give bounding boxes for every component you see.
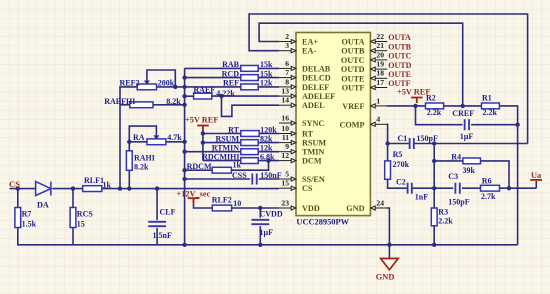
svg-text:R7: R7 bbox=[22, 210, 32, 219]
svg-text:OUTA: OUTA bbox=[341, 38, 364, 47]
capacitor CREF bbox=[465, 119, 469, 130]
wire RLF1 to pin 15 CS (crosses ground rail) bbox=[102, 188, 279, 190]
svg-text:C3: C3 bbox=[448, 172, 458, 181]
wire REF row from rail to resistor bbox=[185, 86, 241, 88]
svg-text:RTMIN: RTMIN bbox=[212, 144, 239, 153]
svg-text:15: 15 bbox=[77, 220, 85, 229]
svg-text:RAEFHI: RAEFHI bbox=[104, 97, 135, 106]
wire EA- pin 3 feedback loop to C1 node bbox=[249, 14, 527, 144]
wire REF2 right end to ground rail bbox=[157, 86, 185, 88]
pin 2 stub bbox=[279, 39, 296, 43]
pin 24 stub bbox=[371, 206, 388, 210]
wire Ua port stem bbox=[535, 181, 537, 188]
junction rail/RDCM row bbox=[182, 168, 186, 172]
svg-text:CSS: CSS bbox=[232, 171, 247, 180]
svg-text:RDCM: RDCM bbox=[187, 162, 212, 171]
pin 12 stub bbox=[279, 159, 296, 163]
pin 8 stub bbox=[279, 85, 296, 89]
wire C2 to node B lower bbox=[412, 187, 434, 189]
svg-text:2.2k: 2.2k bbox=[438, 217, 453, 226]
pin 14 stub bbox=[279, 103, 296, 107]
resistor RCD bbox=[241, 75, 258, 81]
svg-text:RAB: RAB bbox=[222, 60, 240, 69]
junction COMP node/C1 row bbox=[385, 141, 389, 145]
svg-text:+5V REF: +5V REF bbox=[397, 88, 430, 97]
wire diode DA cathode to resistor RLF1 bbox=[53, 188, 83, 190]
svg-text:OUTA: OUTA bbox=[388, 33, 411, 42]
wire R5 bottom to C2 bbox=[388, 179, 408, 188]
wire CVDD to ground rail bbox=[259, 226, 261, 245]
svg-text:DCM: DCM bbox=[302, 157, 322, 166]
wire CREF to right-side rail bbox=[471, 124, 517, 126]
resistor RCS bbox=[70, 208, 76, 228]
svg-text:ADELEF: ADELEF bbox=[302, 92, 335, 101]
pin 4 stub bbox=[371, 122, 388, 126]
pin 13 stub bbox=[279, 94, 296, 98]
svg-text:16: 16 bbox=[281, 113, 289, 122]
svg-text:6: 6 bbox=[285, 59, 289, 68]
svg-text:OUTC: OUTC bbox=[341, 56, 365, 65]
svg-text:OUTF: OUTF bbox=[342, 84, 365, 93]
wire RLF2 to pin 23 VDD bbox=[232, 207, 279, 209]
resistor R7 bbox=[15, 208, 21, 228]
svg-text:SS/EN: SS/EN bbox=[302, 175, 325, 184]
svg-text:17: 17 bbox=[376, 78, 384, 87]
svg-text:OUTD: OUTD bbox=[388, 61, 411, 70]
resistor RAB bbox=[241, 66, 258, 72]
capacitor C2 bbox=[408, 183, 412, 194]
wire RAEF left end to rail bbox=[185, 95, 194, 97]
pin 10 stub bbox=[279, 131, 296, 135]
svg-text:Ua: Ua bbox=[531, 171, 542, 180]
svg-text:REF: REF bbox=[223, 79, 239, 88]
svg-text:RSUM: RSUM bbox=[302, 139, 326, 148]
wire REF to pin 8 DELEF bbox=[258, 86, 279, 88]
junction REF2 wiper/right end bbox=[173, 85, 177, 89]
pin 3 stub bbox=[279, 49, 296, 53]
svg-text:OUTC: OUTC bbox=[388, 52, 411, 61]
resistor RLF2 bbox=[212, 205, 231, 211]
svg-text:200k: 200k bbox=[158, 78, 175, 87]
svg-text:RCD: RCD bbox=[222, 69, 240, 78]
svg-text:R6: R6 bbox=[482, 176, 492, 185]
svg-text:150pF: 150pF bbox=[448, 198, 469, 207]
wire +5V REF stem down rail bbox=[202, 131, 204, 161]
svg-text:REF2: REF2 bbox=[120, 78, 140, 87]
pin 15 stub bbox=[279, 186, 296, 190]
junction rail/RTMIN row bbox=[182, 150, 186, 154]
svg-text:7: 7 bbox=[285, 68, 289, 77]
pin 18 stub bbox=[371, 76, 388, 80]
wire RAHI down to CS line bbox=[128, 170, 130, 188]
wire RAB to pin 6 DELAB bbox=[258, 67, 279, 69]
svg-text:RCS: RCS bbox=[77, 210, 94, 219]
junction +5V rail/RSUM row bbox=[201, 140, 205, 144]
power +5V REF symbol (right) bbox=[411, 98, 423, 104]
resistor R3 bbox=[431, 208, 437, 226]
junction rail/RA right bbox=[182, 140, 186, 144]
junction rail/RAEF row bbox=[182, 94, 186, 98]
svg-text:R3: R3 bbox=[438, 208, 448, 217]
junction DCM node/RDCM bbox=[266, 158, 270, 162]
wire EA+ pin 2 feedback loop to R1/R2 node bbox=[259, 23, 463, 106]
pin 6 stub bbox=[279, 66, 296, 70]
svg-text:2: 2 bbox=[285, 32, 289, 41]
svg-text:DELEF: DELEF bbox=[302, 83, 329, 92]
junction CS/R7 bbox=[16, 186, 20, 190]
wire RCS to ground rail bbox=[72, 228, 74, 245]
svg-text:21: 21 bbox=[376, 41, 384, 50]
junction rail/RAEFHI row bbox=[182, 103, 186, 107]
junction +5V rail/RT row bbox=[201, 131, 205, 135]
svg-text:39k: 39k bbox=[463, 166, 476, 175]
ground GND symbol bbox=[381, 259, 399, 270]
svg-text:CS: CS bbox=[302, 184, 313, 193]
wire REF2 left end down to CS line bbox=[120, 87, 137, 189]
junction node B/R4 row bbox=[432, 159, 436, 163]
wire RT to pin 10 bbox=[259, 133, 279, 135]
svg-text:12k: 12k bbox=[260, 79, 273, 88]
capacitor C3 bbox=[455, 183, 459, 194]
svg-text:12: 12 bbox=[281, 151, 289, 160]
svg-text:GND: GND bbox=[346, 204, 364, 213]
wire RTMIN to pin 9 TMIN bbox=[258, 151, 279, 153]
svg-text:15k: 15k bbox=[260, 60, 273, 69]
svg-text:CREF: CREF bbox=[452, 109, 474, 118]
svg-text:TMIN: TMIN bbox=[302, 148, 324, 157]
power +5V REF symbol (left) bbox=[197, 126, 209, 132]
wire CS node down to CLF bbox=[156, 189, 158, 221]
svg-text:C2: C2 bbox=[396, 177, 406, 186]
junction VDD/CVDD bbox=[258, 206, 262, 210]
svg-text:COMP: COMP bbox=[339, 120, 364, 129]
wire RA right end to ground rail bbox=[166, 141, 185, 143]
pin 9 stub bbox=[279, 150, 296, 154]
wire RCD row from rail to resistor bbox=[185, 77, 241, 79]
svg-text:8: 8 bbox=[285, 77, 289, 86]
pin 21 stub bbox=[371, 49, 388, 53]
svg-text:6.8k: 6.8k bbox=[260, 152, 275, 161]
junction RA left/wiper bbox=[127, 140, 131, 144]
svg-text:1: 1 bbox=[376, 96, 380, 105]
svg-text:SYNC: SYNC bbox=[302, 119, 324, 128]
svg-text:1µF: 1µF bbox=[260, 228, 274, 237]
svg-text:DELAB: DELAB bbox=[302, 64, 331, 73]
wire REF2 wiper loop bbox=[147, 70, 175, 87]
svg-text:270k: 270k bbox=[393, 160, 410, 169]
wire R4 right end down to output node bbox=[481, 161, 510, 188]
svg-text:9: 9 bbox=[285, 142, 289, 151]
wire bottom ground rail bbox=[18, 228, 518, 245]
svg-text:23: 23 bbox=[281, 198, 289, 207]
resistor R1 bbox=[482, 103, 500, 109]
junction CS/RCS bbox=[71, 186, 75, 190]
junction R2/R1 node with EA+ bbox=[461, 104, 465, 108]
pin 11 stub bbox=[279, 141, 296, 145]
wire C1 to node B and EA- rail bbox=[414, 143, 528, 145]
svg-text:13: 13 bbox=[281, 87, 289, 96]
junction bottom rail/CVDD bbox=[258, 243, 262, 247]
wire CS node down to R7 bbox=[17, 189, 19, 208]
resistor RAEF bbox=[194, 93, 212, 99]
svg-text:RLF1: RLF1 bbox=[84, 176, 104, 185]
op-amp U1 UCC28950PW controller IC body bbox=[296, 33, 370, 216]
wire R1 right end down right-side rail to ground rail bbox=[499, 106, 517, 245]
svg-text:EA+: EA+ bbox=[302, 38, 318, 47]
wire RAEF right end to pin 13 ADELEF bbox=[212, 95, 279, 97]
wire pin 24 GND down to ground rail bbox=[387, 208, 389, 245]
svg-text:+5V REF: +5V REF bbox=[185, 116, 218, 125]
svg-text:120k: 120k bbox=[260, 125, 277, 134]
svg-text:3: 3 bbox=[285, 41, 289, 50]
svg-text:82k: 82k bbox=[260, 134, 273, 143]
svg-text:OUTE: OUTE bbox=[341, 74, 365, 83]
junction RAEF node/pin14 jog bbox=[219, 94, 223, 98]
port Ua symbol bbox=[530, 179, 542, 181]
potentiometer REF2 bbox=[137, 84, 156, 90]
svg-text:DELCD: DELCD bbox=[302, 74, 331, 83]
potentiometer REF2 wiper arrow bbox=[144, 81, 150, 85]
svg-text:EA-: EA- bbox=[302, 47, 316, 56]
wire node B vertical bbox=[433, 144, 435, 209]
svg-text:10: 10 bbox=[281, 124, 289, 133]
wire pin 4 COMP down to R5/C1 node bbox=[386, 124, 389, 161]
resistor R5 bbox=[385, 161, 391, 179]
svg-text:8.2k: 8.2k bbox=[134, 163, 149, 172]
pin 20 stub bbox=[371, 58, 388, 62]
svg-text:2.2k: 2.2k bbox=[427, 108, 442, 117]
svg-text:RT: RT bbox=[302, 130, 314, 139]
svg-text:2.2k: 2.2k bbox=[483, 108, 498, 117]
svg-text:4.22k: 4.22k bbox=[216, 89, 235, 98]
pin 22 stub bbox=[371, 39, 388, 43]
wire RSUM row from +5V rail to resistor bbox=[203, 142, 241, 144]
junction node B/C1 row bbox=[432, 141, 436, 145]
svg-text:ADEL: ADEL bbox=[302, 101, 325, 110]
wire RDCMIHI to pin 12 DCM bbox=[258, 160, 279, 162]
svg-text:RLF2: RLF2 bbox=[212, 195, 232, 204]
capacitor CSS bbox=[252, 174, 256, 185]
wire CS net from port to diode DA anode bbox=[10, 188, 36, 190]
wire +12V_sec to RLF2 bbox=[194, 199, 213, 209]
svg-text:4.7k: 4.7k bbox=[167, 133, 182, 142]
svg-text:20: 20 bbox=[376, 50, 384, 59]
junction bottom rail/GND tap bbox=[387, 243, 391, 247]
junction node B/C2-C3 row bbox=[432, 186, 436, 190]
svg-text:UCC28950PW: UCC28950PW bbox=[296, 217, 349, 226]
junction right rail/CREF row bbox=[515, 123, 519, 127]
wire RDCMIHI row from +5V rail to resistor bbox=[203, 160, 241, 162]
wire VDD node down to CVDD bbox=[259, 208, 261, 218]
svg-text:OUTD: OUTD bbox=[341, 65, 365, 74]
resistor RDCM bbox=[212, 167, 231, 173]
svg-text:12k: 12k bbox=[260, 144, 273, 153]
svg-text:1nF: 1nF bbox=[415, 193, 428, 202]
wire jog from RAEF node to pin 14 ADEL bbox=[222, 96, 280, 116]
svg-text:15k: 15k bbox=[260, 69, 273, 78]
svg-text:150pF: 150pF bbox=[417, 134, 438, 143]
junction rail/RCD row bbox=[182, 75, 186, 79]
svg-text:1.5k: 1.5k bbox=[22, 220, 37, 229]
svg-text:R5: R5 bbox=[393, 150, 403, 159]
pin 16 stub bbox=[279, 121, 296, 125]
capacitor CVDD bbox=[251, 220, 269, 224]
wire C3 to R6 bbox=[462, 187, 481, 189]
wire RAB row from rail to resistor bbox=[185, 67, 241, 69]
svg-text:11: 11 bbox=[282, 133, 289, 142]
wire RAEFHI right end to rail bbox=[153, 104, 185, 106]
svg-text:RSUM: RSUM bbox=[215, 134, 239, 143]
resistor RLF1 bbox=[83, 186, 102, 192]
svg-text:RA: RA bbox=[133, 133, 145, 142]
junction R4 branch/output row bbox=[507, 186, 511, 190]
svg-text:VREF: VREF bbox=[342, 102, 364, 111]
svg-text:1k: 1k bbox=[103, 181, 112, 190]
pin 5 stub bbox=[279, 177, 296, 181]
wire COMP node to C1 bbox=[388, 143, 410, 145]
svg-text:1.5nF: 1.5nF bbox=[153, 231, 172, 240]
resistor RSUM bbox=[241, 140, 258, 146]
diode DA bbox=[36, 182, 51, 196]
junction rail/bottom rail bbox=[182, 243, 186, 247]
power +12V_sec symbol bbox=[188, 198, 200, 203]
svg-text:GND: GND bbox=[376, 273, 395, 282]
resistor RAEFHI bbox=[130, 102, 153, 108]
resistor RTMIN bbox=[241, 149, 258, 155]
svg-text:10: 10 bbox=[233, 199, 241, 208]
svg-text:VDD: VDD bbox=[302, 204, 320, 213]
svg-text:OUTB: OUTB bbox=[388, 42, 411, 51]
svg-text:19: 19 bbox=[376, 60, 384, 69]
junction CS/CLF bbox=[155, 186, 159, 190]
svg-text:1k: 1k bbox=[233, 161, 242, 170]
wire RSUM to pin 11 bbox=[258, 142, 279, 144]
junction VREF row/+5V REF tap bbox=[413, 104, 417, 108]
resistor R4 bbox=[463, 158, 481, 164]
svg-text:DA: DA bbox=[37, 201, 49, 210]
wire R2 to R1 bbox=[444, 105, 482, 107]
svg-text:RAEF: RAEF bbox=[193, 85, 215, 94]
junction CS/RAHI bbox=[127, 186, 131, 190]
svg-text:2.7k: 2.7k bbox=[481, 192, 496, 201]
pin 17 stub bbox=[371, 85, 388, 89]
wire pin 1 VREF to R2 bbox=[387, 105, 426, 107]
junction bottom rail/R3 bbox=[432, 243, 436, 247]
wire node B to R4 bbox=[434, 160, 463, 162]
junction rail/CSS row bbox=[182, 177, 186, 181]
wire vertical ground rail bbox=[184, 68, 186, 244]
wire VREF node down to CREF bbox=[416, 106, 463, 125]
wire RA wiper to RA left end bbox=[129, 126, 156, 142]
wire RT row from +5V rail to resistor bbox=[203, 133, 241, 135]
svg-text:OUTB: OUTB bbox=[341, 47, 365, 56]
svg-text:24: 24 bbox=[376, 198, 384, 207]
junction CS/REF2 branch bbox=[118, 186, 122, 190]
wire RA left end down to RAHI bbox=[129, 142, 147, 151]
svg-text:R1: R1 bbox=[482, 94, 492, 103]
svg-text:22: 22 bbox=[376, 32, 384, 41]
wire CS node down to RCS bbox=[72, 189, 74, 208]
wire RTMIN row from rail to resistor (crosses +5V rail) bbox=[185, 151, 241, 153]
wire RAEFHI left end bbox=[120, 104, 130, 106]
svg-text:RAHI: RAHI bbox=[134, 154, 155, 163]
resistor RAHI bbox=[126, 151, 132, 171]
potentiometer RA wiper arrow bbox=[153, 135, 159, 139]
wire node B row to C3 bbox=[434, 187, 453, 189]
junction rail/REF row bbox=[182, 85, 186, 89]
wire RDCM left end to rail bbox=[185, 169, 213, 171]
svg-text:CLF: CLF bbox=[160, 208, 176, 217]
svg-text:1µF: 1µF bbox=[460, 132, 474, 141]
svg-text:OUTE: OUTE bbox=[388, 70, 411, 79]
svg-text:4: 4 bbox=[376, 115, 380, 124]
pin 7 stub bbox=[279, 76, 296, 80]
svg-text:CVDD: CVDD bbox=[260, 210, 283, 219]
wire R6 to Ua port (crosses right-side rail) bbox=[500, 187, 537, 189]
resistor RT bbox=[241, 131, 259, 137]
resistor R6 bbox=[481, 185, 500, 191]
svg-text:5: 5 bbox=[285, 169, 289, 178]
potentiometer RA bbox=[147, 139, 166, 145]
wire CSS row from rail to capacitor bbox=[185, 178, 251, 180]
svg-text:8.2k: 8.2k bbox=[166, 97, 181, 106]
svg-text:+12V_sec: +12V_sec bbox=[177, 189, 211, 198]
svg-text:14: 14 bbox=[281, 96, 289, 105]
svg-text:C1: C1 bbox=[398, 134, 408, 143]
svg-text:CS: CS bbox=[9, 179, 20, 189]
resistor RDCMIHI bbox=[241, 158, 258, 164]
resistor REF bbox=[241, 84, 258, 90]
pin 19 stub bbox=[371, 67, 388, 71]
wire CLF to ground rail bbox=[156, 228, 158, 245]
wire R3 to ground rail bbox=[433, 226, 435, 245]
svg-text:18: 18 bbox=[376, 69, 384, 78]
pin 1 stub bbox=[371, 104, 388, 108]
pin 23 stub bbox=[279, 206, 296, 210]
capacitor C1 bbox=[410, 138, 414, 149]
wire CSS to pin 5 SS/EN bbox=[259, 178, 279, 180]
wire RCD to pin 7 DELCD bbox=[258, 77, 279, 79]
svg-text:R4: R4 bbox=[451, 153, 461, 162]
capacitor CLF bbox=[148, 222, 166, 226]
svg-text:RT: RT bbox=[228, 125, 239, 134]
wire ground rail to GND symbol bbox=[388, 245, 390, 259]
svg-text:15: 15 bbox=[281, 179, 289, 188]
wire RDCM right end up to DCM node bbox=[231, 161, 268, 171]
svg-text:150nF: 150nF bbox=[260, 171, 281, 180]
resistor R2 bbox=[426, 103, 444, 109]
